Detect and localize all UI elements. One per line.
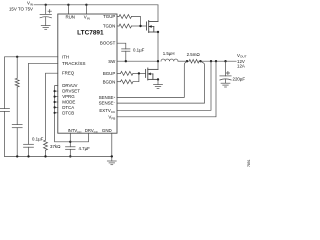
node DTCB <box>54 112 56 114</box>
wire ground rail <box>5 155 112 157</box>
wire TGUP <box>117 16 119 18</box>
wire top FET drain drop <box>157 5 159 22</box>
node RFREQ rail <box>44 155 46 157</box>
wire DRVCC jog <box>70 133 88 142</box>
wire ITH <box>5 57 58 109</box>
svg-text:VIN: VIN <box>84 14 90 20</box>
node EXTVCC tap <box>210 60 212 62</box>
svg-text:TGDN: TGDN <box>103 24 115 29</box>
svg-text:0.1µF: 0.1µF <box>133 48 145 53</box>
svg-text:4.7µF: 4.7µF <box>79 146 91 151</box>
wire DTCA stub <box>55 106 58 108</box>
wire L1 to Rsense <box>178 60 189 62</box>
wire BGUP to gate <box>133 72 146 74</box>
node SW column <box>157 60 159 62</box>
capacitor CVCC 4.7uF <box>66 147 76 157</box>
svg-text:MODE: MODE <box>62 100 75 105</box>
wire BGDN <box>117 81 121 83</box>
svg-text:VPRG: VPRG <box>62 94 75 99</box>
wire ITH R leg <box>16 57 18 79</box>
svg-text:DRVSET: DRVSET <box>62 89 80 94</box>
wire RFREQ to rail <box>45 150 47 156</box>
node boost cap to SW <box>125 60 127 62</box>
svg-text:VOUT: VOUT <box>237 53 247 59</box>
node RITH leg rail <box>16 155 18 157</box>
svg-text:DRVUV: DRVUV <box>62 83 77 88</box>
svg-text:15V TO 75V: 15V TO 75V <box>9 7 33 12</box>
node top gate junction <box>139 25 141 27</box>
svg-text:220µF: 220µF <box>233 76 246 81</box>
node CVCC to rail <box>69 155 71 157</box>
svg-text:LTC7891: LTC7891 <box>77 29 104 36</box>
svg-text:EXTVCC: EXTVCC <box>99 108 116 114</box>
node DTCA <box>54 106 56 108</box>
wire DTCB stub <box>55 112 58 114</box>
node COUT tap <box>224 60 226 62</box>
wire TGDN to gate <box>132 25 147 27</box>
svg-text:ITH: ITH <box>62 54 69 59</box>
svg-text:SENSE+: SENSE+ <box>99 95 116 100</box>
node VFB tap <box>215 60 217 62</box>
svg-text:BGUP: BGUP <box>103 71 116 76</box>
node Q1 source / SW <box>157 31 159 33</box>
transistor Q2 (bottom NMOS) <box>146 68 158 80</box>
wire MODE stub <box>55 101 58 103</box>
resistor R TGDN <box>119 24 131 28</box>
node VIN input cap tap <box>45 4 47 6</box>
svg-text:VFB: VFB <box>108 114 115 120</box>
svg-text:BOOST: BOOST <box>100 40 116 45</box>
resistor R BGDN <box>121 80 133 84</box>
svg-text:GND: GND <box>102 128 112 133</box>
wire INTVCC drop <box>69 133 71 147</box>
node bottom gate junction <box>138 72 140 74</box>
capacitor CIN (input, polarized) <box>40 5 52 26</box>
wire BOOST <box>117 43 126 49</box>
wire DRVUV tie column <box>55 86 71 142</box>
wire TRACK/SS <box>29 63 58 144</box>
wire VIN top rail <box>34 4 158 6</box>
svg-text:12A: 12A <box>237 64 245 69</box>
node Rsense left <box>186 60 188 62</box>
svg-text:DTCB: DTCB <box>62 110 74 115</box>
wire BGUP <box>117 72 121 74</box>
node Rsense right <box>199 60 201 62</box>
node VPRG <box>54 96 56 98</box>
node ITH RC tap <box>16 56 18 58</box>
op-amp U1 LTC7891 IC body <box>58 14 117 133</box>
svg-text:RUN: RUN <box>65 14 75 19</box>
node VIN pin tap <box>85 4 87 6</box>
svg-text:FREQ: FREQ <box>62 71 75 76</box>
svg-text:37kΩ: 37kΩ <box>50 144 60 149</box>
transistor Q1 (top NMOS) <box>147 21 159 33</box>
svg-text:DTCA: DTCA <box>62 105 74 110</box>
resistor RS 2.5mOhm <box>189 59 199 63</box>
wire VFB return <box>117 61 216 117</box>
wire TGUP to gate junction <box>132 17 141 27</box>
resistor R TGUP <box>119 15 131 19</box>
svg-text:7891: 7891 <box>247 159 250 167</box>
node GND rail <box>111 155 113 157</box>
wire FREQ <box>46 73 58 140</box>
svg-text:VIN: VIN <box>27 0 33 6</box>
wire BGDN to gate junction <box>133 73 139 81</box>
node DRVSET <box>54 90 56 92</box>
svg-text:TRACK/SS: TRACK/SS <box>62 61 86 66</box>
capacitor CB 0.1uF (boost) <box>122 49 130 61</box>
wire RUN drop <box>67 5 69 14</box>
ground (Q2 source) <box>154 85 163 89</box>
wire RITH to CITH <box>16 87 18 125</box>
capacitor CITH <box>12 125 22 157</box>
wire SW <box>117 60 158 62</box>
wire SENSE- return <box>117 61 205 103</box>
svg-text:0.1µF: 0.1µF <box>32 137 44 142</box>
resistor RITH <box>15 78 19 87</box>
node Q2 source <box>157 78 159 80</box>
ground (GND pin) <box>107 161 116 165</box>
capacitor CSS 0.1uF <box>24 144 34 156</box>
wire GND pin drop <box>111 133 113 161</box>
capacitor COUT 220uF (polarized) <box>220 61 231 83</box>
node INTVCC/DRVCC tie <box>69 141 71 143</box>
capacitor CITH2 <box>0 109 10 157</box>
svg-text:SENSE−: SENSE− <box>99 101 116 106</box>
wire TGDN <box>117 25 119 27</box>
resistor RFREQ 37k <box>44 140 48 150</box>
inductor L1 1.5uH <box>161 59 178 61</box>
wire VPRG stub <box>55 96 58 98</box>
wire VIN pin drop <box>85 5 87 14</box>
svg-text:TGUP: TGUP <box>103 14 115 19</box>
wire SENSE+ return <box>117 61 187 97</box>
svg-text:SW: SW <box>108 59 116 64</box>
resistor R BGUP <box>121 71 133 75</box>
svg-text:1.5µH: 1.5µH <box>163 51 175 56</box>
wire SW vertical <box>157 32 159 69</box>
wire Q2 source to ground <box>157 79 159 84</box>
wire VOUT rail <box>199 60 236 62</box>
svg-text:2.5mΩ: 2.5mΩ <box>187 52 200 57</box>
wire DRVSET stub <box>55 90 58 92</box>
svg-text:BGDN: BGDN <box>103 79 116 84</box>
ground (COUT) <box>221 83 230 87</box>
wire EXTVCC return <box>117 61 211 110</box>
node CSS rail <box>27 155 29 157</box>
node MODE <box>54 101 56 103</box>
node RUN tap <box>67 4 69 6</box>
ground (input cap) <box>41 26 50 30</box>
